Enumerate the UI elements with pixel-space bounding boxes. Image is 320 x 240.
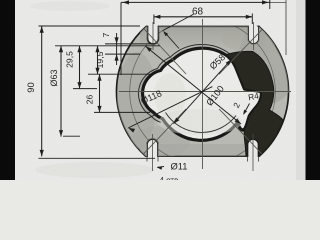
vertical centerline <box>202 19 204 169</box>
dim O100 diagonal <box>146 46 242 124</box>
dim 90 left <box>39 25 141 27</box>
bolt circle O100 centerline <box>130 19 276 165</box>
dim 19,5 <box>97 46 99 74</box>
dim 7 <box>116 33 118 65</box>
dim 29,5 <box>79 46 81 89</box>
slot vertical centerlines <box>152 22 154 50</box>
right black scan border <box>306 0 320 180</box>
inner cavity O58/O63 with left lobe and right notch <box>143 48 262 140</box>
leader to top-left slot <box>163 14 194 31</box>
scan grain <box>0 0 1 1</box>
O63 thin offset contour <box>138 44 229 122</box>
bottom slot wall stubs <box>146 156 148 161</box>
horizontal centerline <box>119 91 291 93</box>
dim 68 top <box>154 16 252 18</box>
dim O118 radial <box>128 87 212 128</box>
O58 thin inner bottom arc <box>166 113 237 133</box>
flange outer profile O118 with flats and four O11 slots <box>116 27 288 157</box>
dim O63 left <box>60 46 62 137</box>
slot radial centerlines <box>144 29 186 74</box>
dark shaded section (right side) <box>227 51 284 156</box>
dim 26 <box>99 74 101 112</box>
dim 118 top <box>121 1 270 3</box>
paper background <box>0 0 320 180</box>
left black scan border <box>0 0 15 180</box>
dim O58 diagonal <box>174 59 232 124</box>
